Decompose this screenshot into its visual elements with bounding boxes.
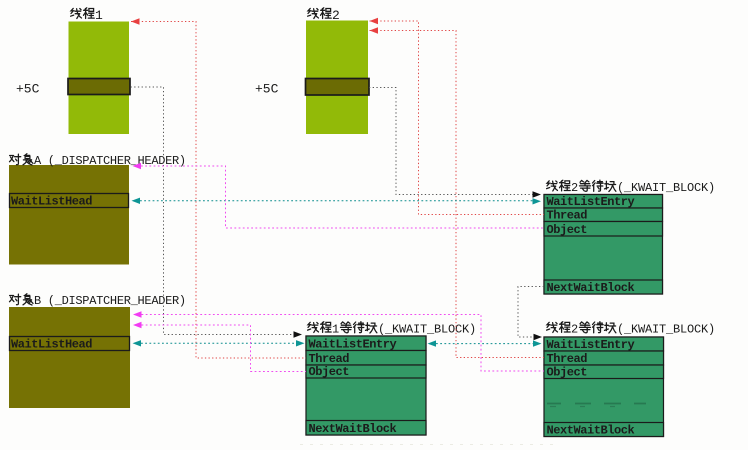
label thread1 (线程1) (71, 8, 103, 23)
wait block R1 (thread2, object A) block body (544, 195, 663, 295)
wire teal: blockM.WaitListEntry <-> blockR2.WaitListEntry (428, 340, 542, 346)
svg-text:(_KWAIT_BLOCK): (_KWAIT_BLOCK) (617, 323, 715, 337)
svg-text:WaitListEntry: WaitListEntry (547, 338, 635, 352)
svg-text:WaitListEntry: WaitListEntry (309, 338, 397, 352)
object B WaitListHead row (10, 337, 130, 352)
faint artifact dashes bottom (300, 444, 560, 446)
label thread2 wait block R1 ( _KWAIT_BLOCK ) (547, 180, 715, 195)
thread1 offset band (+5C WaitBlockList field) (68, 79, 130, 95)
svg-text:NextWaitBlock: NextWaitBlock (547, 281, 635, 295)
wait block R1 (thread2, object A) row WaitListEntry (544, 195, 663, 210)
wait block R2 (thread2, object B) row Thread (544, 351, 664, 366)
svg-text:1: 1 (332, 323, 339, 337)
label +5C (thread1) (16, 82, 40, 97)
svg-text:2: 2 (332, 8, 340, 23)
wait block M (thread1) row NextWaitBlock (306, 421, 426, 437)
wire teal: objectA.WaitListHead <-> blockR1.WaitListEntry (132, 198, 542, 205)
label +5C (thread2) (255, 82, 279, 97)
wait block R2 (thread2, object B) row WaitListEntry (544, 337, 664, 352)
svg-text:(_KWAIT_BLOCK): (_KWAIT_BLOCK) (617, 181, 715, 195)
wire magenta: blockR2.Object -> objectB (133, 311, 544, 371)
label thread2 wait block R2 ( _KWAIT_BLOCK ) (547, 322, 715, 337)
svg-text:NextWaitBlock: NextWaitBlock (547, 424, 635, 438)
svg-text:1: 1 (95, 8, 103, 23)
R2 omitted-fields ellipsis line (547, 404, 646, 407)
label thread1 wait block ( _KWAIT_BLOCK ) (308, 322, 476, 337)
svg-text:Object: Object (547, 223, 588, 237)
wire magenta: blockM.Object -> objectB (133, 322, 306, 372)
wire red: blockM.Thread -> thread1 (131, 18, 306, 358)
svg-text:Thread: Thread (547, 209, 588, 223)
wire black: blockR1.NextWaitBlock -> blockR2 (518, 287, 544, 341)
wire red: blockR2.Thread -> thread2 (370, 27, 545, 357)
wire black: thread1 +5C -> blockM (131, 87, 303, 338)
wait block M (thread1) row WaitListEntry (306, 336, 426, 352)
svg-text:+5C: +5C (255, 82, 279, 97)
wait block M (thread1) row Thread (306, 351, 426, 367)
wire teal: objectB.WaitListHead <-> blockM.WaitListEntry (133, 340, 305, 346)
wait block R1 (thread2, object A) row Object (544, 222, 663, 238)
svg-text:Object: Object (547, 366, 588, 380)
wait block M (thread1) block body (306, 336, 426, 435)
object B block (9, 307, 130, 408)
thread2 offset band (+5C WaitBlockList field) (306, 79, 370, 96)
svg-text:WaitListHead: WaitListHead (11, 338, 92, 352)
svg-text:(_KWAIT_BLOCK): (_KWAIT_BLOCK) (378, 323, 476, 337)
thread1 block (69, 22, 130, 135)
wait block R1 (thread2, object A) row Thread (544, 208, 663, 223)
label object B ( _DISPATCHER_HEADER ) (10, 294, 186, 308)
wire black: thread2 +5C -> blockR1 (369, 88, 541, 198)
thread2 block (306, 21, 368, 135)
wait block R2 (thread2, object B) block body (544, 337, 664, 437)
wait block R2 (thread2, object B) row Object (544, 365, 664, 380)
svg-text:WaitListEntry: WaitListEntry (547, 195, 635, 209)
svg-text:Thread: Thread (547, 352, 588, 366)
svg-text:Thread: Thread (309, 352, 350, 366)
wait block R1 (thread2, object A) row NextWaitBlock (544, 280, 663, 295)
svg-text:2: 2 (571, 323, 578, 337)
svg-text:2: 2 (571, 181, 578, 195)
wire red: blockR1.Thread -> thread2 (370, 18, 545, 215)
svg-text:NextWaitBlock: NextWaitBlock (309, 422, 397, 436)
label object A ( _DISPATCHER_HEADER ) (10, 154, 186, 168)
label thread2 (线程2) (308, 8, 340, 23)
object A block (9, 165, 129, 265)
object A WaitListHead row (10, 194, 129, 209)
wait block R2 (thread2, object B) row NextWaitBlock (544, 423, 664, 438)
wait block M (thread1) row Object (306, 365, 426, 379)
svg-text:+5C: +5C (16, 82, 40, 97)
wire magenta: blockR1.Object -> objectA (133, 163, 545, 228)
svg-text:WaitListHead: WaitListHead (11, 195, 92, 209)
svg-text:Object: Object (309, 365, 350, 379)
